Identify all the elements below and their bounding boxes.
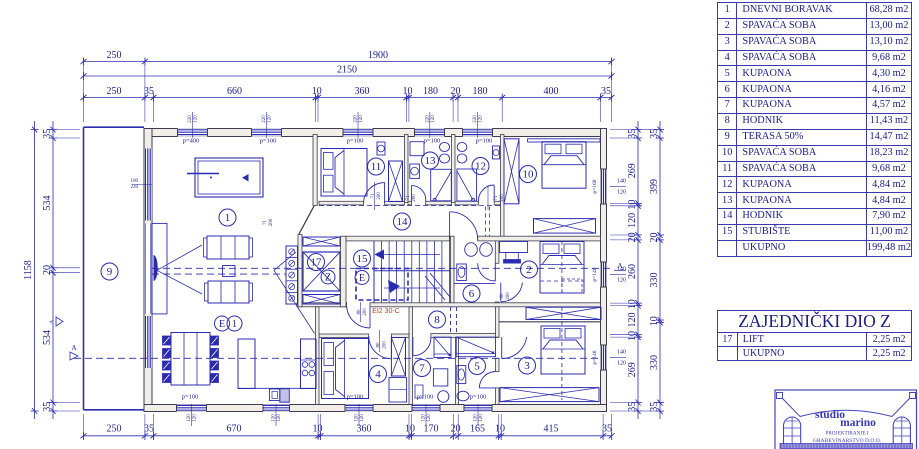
svg-text:35: 35	[601, 86, 611, 97]
svg-text:8: 8	[434, 314, 440, 326]
node room 9 label	[101, 263, 118, 280]
bathroom 6 fixtures	[454, 243, 495, 284]
svg-text:399: 399	[649, 179, 660, 194]
logo right arched window	[893, 417, 910, 444]
room area table	[717, 2, 912, 257]
svg-text:35: 35	[144, 86, 154, 97]
svg-text:120: 120	[474, 414, 479, 422]
svg-text:80: 80	[500, 293, 505, 299]
svg-text:360: 360	[355, 86, 370, 97]
svg-text:14: 14	[397, 216, 409, 228]
logo left arched window	[784, 417, 801, 444]
dimension lines top	[81, 50, 615, 122]
svg-text:220: 220	[188, 115, 193, 123]
node room 10 label	[520, 166, 537, 183]
svg-text:71: 71	[371, 193, 376, 199]
svg-text:80: 80	[376, 342, 381, 348]
svg-text:p=100: p=100	[260, 138, 277, 145]
lift shaft room 17	[298, 235, 346, 307]
svg-text:400: 400	[544, 86, 559, 97]
node room 17 label	[308, 254, 325, 271]
svg-text:35: 35	[602, 424, 612, 435]
svg-text:120: 120	[268, 115, 273, 123]
node room 12 label	[472, 158, 489, 175]
svg-text:120: 120	[627, 313, 638, 328]
svg-text:15: 15	[357, 253, 369, 265]
svg-text:marino: marino	[840, 417, 876, 429]
bathroom 12 fixtures	[457, 142, 500, 201]
svg-text:120: 120	[617, 278, 626, 284]
svg-text:1: 1	[232, 319, 237, 330]
svg-text:35: 35	[42, 402, 53, 412]
svg-text:269: 269	[627, 362, 638, 377]
svg-text:220: 220	[262, 115, 267, 123]
service shafts column	[286, 246, 298, 304]
svg-text:120: 120	[617, 190, 626, 196]
bedroom 10 furniture	[504, 139, 600, 233]
view cone lines	[157, 245, 315, 334]
svg-text:120: 120	[479, 414, 484, 422]
svg-text:330: 330	[649, 355, 660, 370]
svg-text:2: 2	[526, 264, 532, 276]
svg-text:250: 250	[107, 424, 122, 435]
svg-text:10: 10	[523, 169, 535, 181]
svg-text:1158: 1158	[23, 260, 34, 280]
svg-text:3: 3	[524, 360, 530, 372]
node room 6 label	[463, 285, 480, 302]
outer walls	[144, 129, 607, 412]
svg-text:20: 20	[451, 86, 461, 97]
small dimension labels	[131, 112, 627, 426]
bedroom 3 furniture	[500, 283, 599, 402]
node E1 label	[215, 316, 230, 331]
svg-text:100: 100	[131, 179, 139, 184]
svg-text:35: 35	[649, 129, 660, 139]
node room 4 label	[370, 366, 387, 383]
bathroom 7 fixtures	[413, 337, 451, 402]
svg-text:250: 250	[107, 50, 122, 61]
svg-text:120: 120	[427, 414, 432, 422]
corridor 14 door	[450, 212, 478, 241]
svg-text:120: 120	[272, 414, 277, 422]
node room 5 label	[469, 358, 486, 375]
svg-text:EI2 30-C: EI2 30-C	[372, 308, 400, 315]
bedroom 4 furniture	[322, 336, 407, 402]
living room 1 furniture	[187, 158, 263, 303]
svg-text:p=100: p=100	[470, 394, 487, 401]
svg-text:120: 120	[627, 213, 638, 228]
svg-text:p=100: p=100	[476, 138, 493, 145]
svg-text:660: 660	[227, 86, 242, 97]
svg-text:p=100: p=100	[182, 394, 199, 401]
room number circles	[101, 152, 538, 383]
svg-text:35: 35	[144, 424, 154, 435]
balcony door left wall	[144, 223, 167, 314]
svg-text:2150: 2150	[337, 65, 357, 76]
studio marino logo frame	[775, 390, 917, 449]
svg-text:220: 220	[473, 115, 478, 123]
svg-text:269: 269	[627, 163, 638, 178]
dashed section lines	[49, 206, 626, 400]
svg-text:200: 200	[412, 194, 417, 202]
node room 7 label	[414, 360, 431, 377]
svg-text:10: 10	[405, 424, 415, 435]
svg-text:p=160: p=160	[592, 179, 598, 193]
svg-text:180: 180	[473, 86, 488, 97]
logo base strip	[780, 444, 913, 449]
svg-text:6: 6	[469, 288, 475, 300]
svg-text:120: 120	[360, 414, 365, 422]
svg-text:670: 670	[227, 424, 242, 435]
svg-text:PROJEKTIRANJE I: PROJEKTIRANJE I	[825, 431, 868, 437]
svg-text:17: 17	[311, 257, 323, 269]
wardrobe strip between rooms 2 and 3	[526, 307, 601, 319]
svg-text:165: 165	[470, 424, 485, 435]
svg-text:140: 140	[617, 350, 626, 356]
svg-text:260: 260	[627, 264, 638, 279]
svg-text:140: 140	[617, 179, 626, 185]
terrace room 9 outline	[84, 127, 147, 410]
svg-text:71: 71	[494, 195, 499, 201]
dimension lines right	[610, 121, 664, 419]
svg-text:200: 200	[382, 341, 387, 349]
svg-text:p=140: p=140	[592, 267, 598, 281]
svg-text:1900: 1900	[368, 50, 388, 61]
svg-text:A: A	[71, 344, 76, 352]
node room 2 label	[521, 261, 538, 278]
staircase room 15	[347, 241, 450, 328]
svg-text:12: 12	[475, 161, 486, 173]
svg-text:120: 120	[422, 414, 427, 422]
svg-text:A: A	[49, 319, 55, 324]
svg-text:p=100: p=100	[424, 138, 441, 145]
svg-text:10: 10	[649, 316, 660, 326]
node room 3 label	[519, 357, 536, 374]
svg-text:p=100: p=100	[347, 394, 364, 401]
svg-text:20: 20	[42, 265, 53, 275]
node room 13 label	[422, 152, 439, 169]
dimension line bottom	[81, 414, 615, 440]
svg-text:120: 120	[617, 361, 626, 367]
kitchen counter	[238, 339, 316, 402]
svg-text:7: 7	[419, 363, 425, 375]
svg-text:p=100: p=100	[347, 138, 364, 145]
svg-text:p=400: p=400	[183, 138, 200, 145]
svg-text:200: 200	[363, 308, 368, 316]
svg-text:10: 10	[313, 424, 323, 435]
svg-text:120: 120	[277, 414, 282, 422]
node room 1 label	[219, 209, 236, 226]
svg-text:35: 35	[649, 402, 660, 412]
svg-text:71: 71	[263, 220, 268, 226]
svg-text:120: 120	[193, 414, 198, 422]
svg-text:E: E	[219, 319, 225, 330]
svg-text:200: 200	[377, 192, 382, 200]
node room 14 label	[394, 213, 411, 230]
svg-text:200: 200	[269, 218, 274, 226]
fire label EI2 30-C	[372, 308, 400, 315]
svg-text:220: 220	[354, 115, 359, 123]
svg-text:120: 120	[187, 414, 192, 422]
svg-text:415: 415	[544, 424, 559, 435]
svg-text:5: 5	[474, 361, 480, 373]
bedroom 11 furniture	[321, 142, 403, 203]
svg-text:10: 10	[627, 200, 638, 210]
svg-text:35: 35	[627, 129, 638, 139]
node Z label	[321, 270, 335, 284]
dimension lines left	[23, 121, 80, 419]
svg-text:534: 534	[42, 196, 53, 211]
svg-text:10: 10	[403, 86, 413, 97]
svg-text:9: 9	[107, 266, 113, 278]
dining table with chairs	[163, 333, 219, 386]
svg-text:p=100: p=100	[417, 394, 434, 401]
bedroom 2 furniture	[500, 242, 584, 294]
svg-text:Z: Z	[325, 273, 331, 284]
bathroom 5 fixtures	[456, 337, 495, 401]
svg-text:35: 35	[42, 129, 53, 139]
svg-text:p=140: p=140	[592, 350, 598, 364]
svg-text:220: 220	[131, 185, 139, 190]
svg-text:35: 35	[627, 402, 638, 412]
svg-text:250: 250	[107, 86, 122, 97]
svg-text:534: 534	[42, 330, 53, 345]
node room 15 label	[354, 250, 371, 267]
svg-text:13: 13	[425, 155, 437, 167]
svg-text:120: 120	[431, 115, 436, 123]
svg-text:10: 10	[312, 86, 322, 97]
svg-text:200: 200	[500, 194, 505, 202]
svg-text:1: 1	[225, 212, 231, 224]
bathroom 13 fixtures	[410, 142, 452, 202]
interior walls	[297, 135, 601, 405]
window openings	[144, 128, 607, 412]
svg-text:120: 120	[355, 414, 360, 422]
svg-text:20: 20	[627, 232, 638, 242]
svg-text:220: 220	[425, 115, 430, 123]
svg-text:180: 180	[423, 86, 438, 97]
svg-text:E: E	[359, 273, 365, 284]
svg-text:10: 10	[627, 299, 638, 309]
svg-text:20: 20	[649, 233, 660, 243]
svg-text:4: 4	[375, 369, 381, 381]
logo text studio marino	[813, 409, 882, 444]
svg-text:10: 10	[495, 424, 505, 435]
svg-text:20: 20	[451, 424, 461, 435]
common area table ZAJEDNICKI DIO Z	[717, 310, 912, 361]
node room 11 label	[368, 158, 385, 175]
svg-text:80: 80	[357, 309, 362, 315]
svg-text:140: 140	[617, 267, 626, 273]
svg-text:200: 200	[506, 292, 511, 300]
svg-text:120: 120	[479, 115, 484, 123]
svg-text:71: 71	[406, 195, 411, 201]
svg-text:120: 120	[194, 115, 199, 123]
svg-text:120: 120	[359, 115, 364, 123]
svg-text:10: 10	[627, 331, 638, 341]
logo roof arc	[777, 393, 916, 417]
svg-text:330: 330	[649, 273, 660, 288]
node E label	[355, 271, 369, 285]
svg-text:11: 11	[371, 161, 382, 173]
node room 8 label	[429, 311, 446, 328]
